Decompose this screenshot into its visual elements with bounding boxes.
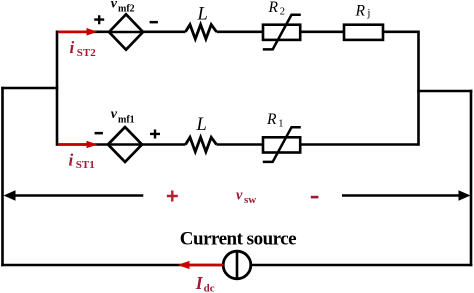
svg-text:j: j <box>366 7 370 19</box>
wire: outer left vertical <box>1 87 4 267</box>
dependent source U2 (diamond v_mf2) <box>109 14 143 49</box>
plus sign (middle source, right terminal) <box>150 130 160 139</box>
dependent source U1 (diamond v_mf1) <box>108 127 142 162</box>
svg-text:ST1: ST1 <box>76 159 95 171</box>
svg-text:v: v <box>111 0 118 11</box>
minus sign of v_sw (red) <box>311 196 319 199</box>
label i_ST2 <box>70 38 97 59</box>
varistor R2 body <box>263 25 300 40</box>
wire: middle branch right segment <box>217 143 419 146</box>
wire: top branch left segment <box>57 30 186 33</box>
label I_dc <box>195 273 215 293</box>
svg-text:R: R <box>268 0 279 16</box>
arrowhead of v_sw right arrow <box>459 190 471 201</box>
current arrow I_dc (red, bottom wire) <box>178 261 224 269</box>
svg-text:L: L <box>196 115 207 135</box>
v_sw measuring arrow left (points left) <box>13 194 143 197</box>
arrowhead of v_sw left arrow <box>4 190 16 201</box>
current arrow i_ST2 (red) <box>58 28 98 36</box>
svg-text:v: v <box>111 107 118 122</box>
current source CS circle <box>223 251 251 279</box>
svg-text:R: R <box>266 111 277 128</box>
svg-text:i: i <box>70 38 75 57</box>
svg-text:v: v <box>236 188 243 204</box>
svg-text:I: I <box>195 273 204 293</box>
inductor L (middle branch) <box>186 137 217 151</box>
svg-text:1: 1 <box>278 119 283 130</box>
varistor R1 diagonal with tails <box>263 127 301 162</box>
plus sign (top source, left terminal) <box>94 15 104 24</box>
v_sw measuring arrow right (points right) <box>342 194 461 197</box>
label i_ST1 <box>69 150 95 171</box>
varistor R2 diagonal with tails <box>263 15 301 50</box>
minus sign (top source, right terminal) <box>150 21 158 24</box>
current source CS internal bar <box>236 251 239 279</box>
label v_sw <box>236 188 256 206</box>
wire: middle branch left segment <box>57 143 186 146</box>
svg-text:mf2: mf2 <box>118 4 135 15</box>
inductor L (top branch) <box>186 25 217 39</box>
svg-text:L: L <box>197 4 208 24</box>
wire: inner right vertical <box>417 31 420 146</box>
svg-text:2: 2 <box>280 7 285 18</box>
svg-text:ST2: ST2 <box>77 47 96 59</box>
minus sign (middle source, left terminal) <box>95 132 103 135</box>
wire: right branch connector <box>417 90 472 93</box>
svg-text:Current source: Current source <box>180 229 296 250</box>
svg-text:i: i <box>69 150 74 169</box>
wire: inner left vertical <box>56 31 59 146</box>
wire: left branch connector <box>1 87 58 90</box>
svg-text:dc: dc <box>204 283 215 293</box>
varistor R1 body <box>263 137 300 152</box>
svg-text:sw: sw <box>244 194 256 206</box>
wire: outer right vertical <box>470 90 473 267</box>
wire: bottom horizontal <box>1 264 472 267</box>
svg-text:R: R <box>355 2 366 19</box>
wire: top branch right segment <box>217 30 419 33</box>
resistor Rj body <box>344 25 383 40</box>
current arrow i_ST1 (red) <box>58 141 98 149</box>
svg-text:mf1: mf1 <box>118 115 135 126</box>
plus sign of v_sw (red) <box>167 191 178 202</box>
